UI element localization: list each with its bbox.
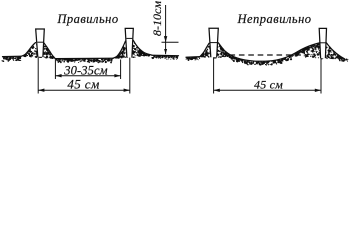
svg-text:Правильно: Правильно: [56, 12, 118, 26]
svg-text:30-35см: 30-35см: [63, 63, 107, 77]
svg-text:8-10см: 8-10см: [150, 1, 164, 36]
svg-text:45 см: 45 см: [254, 78, 283, 92]
svg-text:Неправильно: Неправильно: [236, 12, 311, 26]
svg-text:45 см: 45 см: [67, 76, 99, 91]
